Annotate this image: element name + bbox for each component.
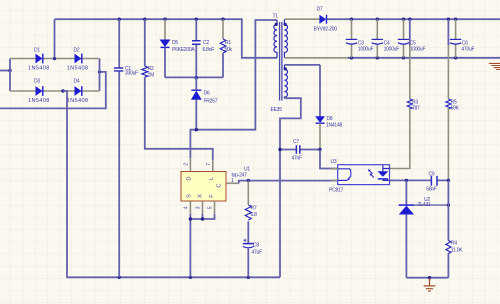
diode D6	[191, 77, 218, 129]
svg-text:T1: T1	[273, 13, 279, 19]
svg-text:D1: D1	[34, 47, 40, 53]
svg-text:P6KE200A: P6KE200A	[172, 47, 195, 53]
optocoupler U3 PC817	[329, 159, 396, 194]
svg-text:FR257: FR257	[204, 99, 218, 105]
svg-text:59K: 59K	[451, 105, 460, 111]
wire bridge minus to primary ground rail	[63, 91, 280, 279]
svg-text:EE35: EE35	[271, 107, 283, 113]
svg-text:1N5408: 1N5408	[28, 65, 50, 71]
wire control net	[239, 179, 338, 183]
svg-text:top-247: top-247	[232, 172, 248, 178]
capacitor C1	[114, 19, 138, 277]
svg-text:F: F	[209, 194, 215, 198]
svg-text:R1: R1	[225, 40, 231, 46]
wire drain node	[190, 20, 277, 158]
wire bridge right side	[99, 59, 101, 92]
ground output rail earth	[489, 63, 500, 69]
svg-text:D2: D2	[74, 47, 80, 53]
wire bridge left side	[9, 59, 11, 92]
svg-text:1N5408: 1N5408	[28, 98, 50, 104]
svg-text:330uF: 330uF	[125, 71, 138, 77]
svg-text:D5: D5	[172, 40, 178, 46]
svg-text:D6: D6	[204, 91, 210, 97]
capacitor C9	[426, 172, 437, 193]
wire D8 to optocoupler collector	[320, 150, 338, 169]
wire aux winding to D8	[284, 64, 320, 66]
svg-text:6.8nF: 6.8nF	[203, 47, 215, 53]
capacitor C6	[450, 19, 475, 58]
resistor R7	[245, 181, 257, 244]
svg-text:11.0K: 11.0K	[451, 247, 463, 253]
svg-text:1000uF: 1000uF	[384, 46, 400, 52]
resistor R4	[446, 180, 463, 277]
svg-text:47uF: 47uF	[252, 250, 263, 256]
svg-text:C7: C7	[293, 139, 299, 145]
wire output return rail	[284, 56, 500, 59]
svg-text:1N4148: 1N4148	[326, 123, 342, 129]
capacitor C5	[398, 19, 426, 58]
diode D3	[28, 79, 50, 105]
svg-text:PC817: PC817	[329, 188, 344, 194]
diode D7	[284, 7, 337, 33]
svg-text:50k: 50k	[225, 47, 233, 53]
wire bridge bottom branch	[10, 89, 100, 92]
svg-text:47nF: 47nF	[292, 156, 303, 162]
svg-text:R7: R7	[251, 206, 257, 212]
diode D8	[315, 65, 342, 150]
capacitor C8	[243, 239, 262, 278]
svg-text:D: D	[186, 176, 192, 180]
IC U1 top-247	[181, 158, 250, 214]
ground secondary earth	[424, 278, 436, 291]
svg-text:1000uF: 1000uF	[410, 46, 426, 52]
svg-text:D7: D7	[317, 7, 323, 13]
capacitor C3	[346, 19, 374, 58]
svg-text:1000uF: 1000uF	[358, 46, 374, 52]
svg-text:S: S	[186, 194, 192, 198]
svg-text:1N5408: 1N5408	[67, 65, 89, 71]
svg-text:C2: C2	[203, 40, 209, 46]
wire TL431 ground	[406, 276, 448, 279]
resistor R2	[142, 19, 213, 160]
capacitor C4	[372, 19, 400, 58]
svg-text:TL431: TL431	[418, 202, 431, 208]
svg-text:R2: R2	[148, 66, 154, 72]
svg-text:D3: D3	[34, 79, 40, 85]
resistor R1	[220, 19, 232, 77]
resistor R3	[390, 19, 421, 168]
svg-text:1N5408: 1N5408	[67, 98, 89, 104]
wire +V output rail	[327, 18, 500, 21]
shunt regulator U2 TL431	[399, 180, 450, 277]
diode D1	[28, 47, 50, 71]
capacitor C2	[192, 19, 214, 77]
svg-text:D4: D4	[74, 79, 80, 85]
diode D2	[67, 47, 89, 71]
resistor R5	[446, 19, 460, 180]
svg-text:6.8: 6.8	[251, 212, 258, 218]
svg-text:68nF: 68nF	[426, 187, 437, 193]
svg-text:BYV92-200: BYV92-200	[314, 27, 338, 33]
svg-text:2M: 2M	[148, 73, 155, 79]
wire clamp bottom	[165, 76, 223, 79]
transformer T1	[271, 13, 288, 113]
wire source net	[189, 214, 215, 277]
svg-text:X: X	[198, 194, 204, 198]
svg-text:470uF: 470uF	[461, 46, 474, 52]
svg-text:C9: C9	[429, 172, 435, 178]
wire bridge top branch	[10, 57, 100, 60]
svg-text:U3: U3	[331, 159, 337, 165]
svg-text:C: C	[217, 183, 223, 187]
diode D4	[67, 79, 89, 105]
wire AC input line	[0, 69, 12, 72]
diode D5 TVS	[160, 19, 196, 77]
svg-text:R4: R4	[451, 240, 457, 246]
svg-text:787: 787	[412, 105, 420, 111]
wire aux return	[280, 98, 301, 277]
svg-text:D8: D8	[327, 116, 333, 122]
wire AC input neutral	[0, 70, 106, 108]
wire main HV bus	[55, 18, 278, 58]
wire bridge plus to bus	[54, 19, 56, 58]
wire opto cathode node	[390, 179, 451, 182]
svg-text:C8: C8	[253, 243, 259, 249]
capacitor C7	[278, 139, 321, 162]
